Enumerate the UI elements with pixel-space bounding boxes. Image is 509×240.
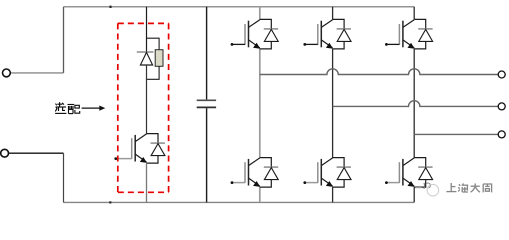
wire: resistor branch top lead (147, 38, 160, 50)
IGBT Q6 (bottom, leg 3): diode branch wire (414, 158, 426, 188)
wire: DC input + lead and riser (10, 72, 63, 74)
IGBT Q1 (top, leg 1): body bar (248, 21, 250, 48)
IGBT Q6 (bottom, leg 3): freewheeling diode cathode bar (418, 166, 432, 168)
IGBT Q4 (bottom, leg 1): body bar (248, 159, 250, 186)
IGBT Q1 (top, leg 1): diode branch wire (260, 19, 272, 49)
IGBT Q3 (top, leg 3): emitter diagonal (403, 40, 414, 48)
wire: phase U output line with hops (260, 69, 498, 75)
IGBT Q2 (top, leg 2): gate bar (317, 24, 319, 45)
wire: phase V output line with hop (333, 101, 499, 107)
IGBT Q1 (top, leg 1): freewheeling diode cathode bar (264, 28, 278, 30)
wire: leg 3 collector drop (413, 7, 415, 20)
IGBT Q4 (bottom, leg 1): diode branch wire (260, 158, 272, 188)
IGBT Q5 (bottom, leg 2): freewheeling diode cathode bar (337, 166, 351, 168)
wire: leg 3 midpoint vertical (413, 49, 415, 158)
capacitor C1 bottom lead (206, 108, 208, 202)
IGBT Q1 (top, leg 1): emitter diagonal (249, 40, 260, 48)
capacitor C1 bottom plate (197, 106, 216, 108)
IGBT Q1 (top, leg 1): emitter arrowhead (254, 44, 260, 49)
IGBT Q3 (top, leg 3): emitter arrowhead (408, 44, 414, 49)
IGBT Q4 (bottom, leg 1): gate terminal dot (231, 181, 234, 184)
wire: resistor branch bottom lead (147, 66, 160, 79)
watermark text: 上海大周 (446, 183, 491, 192)
IGBT Q7 (brake chopper): body bar (134, 135, 136, 162)
wire: leg 2 emitter to bottom rail (332, 187, 334, 202)
terminal: DC input - (1, 149, 9, 157)
wire: brake branch feed from top rail (146, 7, 148, 52)
IGBT Q5 (bottom, leg 2): gate lead (305, 182, 318, 184)
IGBT Q2 (top, leg 2): collector diagonal (322, 20, 333, 28)
IGBT Q3 (top, leg 3): gate terminal dot (385, 43, 388, 46)
IGBT Q4 (bottom, leg 1): collector diagonal (249, 158, 260, 166)
IGBT Q2 (top, leg 2): diode branch wire (333, 19, 345, 49)
IGBT Q7 (brake chopper): emitter arrowhead (141, 158, 147, 163)
wire: phase W output line (414, 133, 498, 135)
IGBT Q3 (top, leg 3): gate lead (386, 43, 399, 45)
IGBT Q5 (bottom, leg 2): gate terminal dot (303, 181, 306, 184)
terminal: phase V output (498, 103, 505, 110)
IGBT Q6 (bottom, leg 3): emitter arrowhead (408, 182, 414, 187)
IGBT Q1 (top, leg 1): collector diagonal (249, 20, 260, 28)
arrow: from label to dashed box (82, 107, 100, 109)
IGBT Q6 (bottom, leg 3): gate lead (386, 182, 399, 184)
IGBT Q5 (bottom, leg 2): emitter arrowhead (327, 182, 333, 187)
IGBT Q5 (bottom, leg 2): body bar (320, 159, 322, 186)
optional-section dashed box (118, 23, 169, 192)
IGBT Q3 (top, leg 3): diode branch wire (414, 19, 426, 49)
IGBT Q3 (top, leg 3): gate bar (398, 24, 400, 45)
IGBT Q1 (top, leg 1): gate terminal dot (231, 43, 234, 46)
IGBT Q7 (brake chopper): gate lead (116, 158, 132, 160)
IGBT Q5 (bottom, leg 2): freewheeling diode triangle (337, 168, 351, 180)
IGBT Q6 (bottom, leg 3): freewheeling diode triangle (419, 168, 433, 180)
IGBT Q5 (bottom, leg 2): gate bar (317, 162, 319, 183)
IGBT Q5 (bottom, leg 2): collector diagonal (322, 158, 333, 166)
watermark logo (416, 183, 439, 196)
capacitor C1 top plate (197, 99, 216, 101)
IGBT Q3 (top, leg 3): freewheeling diode triangle (419, 29, 433, 41)
IGBT Q1 (top, leg 1): gate bar (244, 24, 246, 45)
label: 选配 (optional) text (55, 102, 80, 113)
IGBT Q3 (top, leg 3): body bar (402, 21, 404, 48)
IGBT Q6 (bottom, leg 3): body bar (402, 159, 404, 186)
wire: leg 1 collector drop (259, 7, 261, 20)
IGBT Q2 (top, leg 2): freewheeling diode cathode bar (337, 28, 351, 30)
IGBT Q2 (top, leg 2): gate terminal dot (303, 43, 306, 46)
IGBT Q4 (bottom, leg 1): gate lead (232, 182, 245, 184)
IGBT Q7 (brake chopper): freewheeling diode cathode bar (151, 142, 165, 144)
IGBT Q7 (brake chopper): gate terminal dot (114, 157, 117, 160)
IGBT Q3 (top, leg 3): collector diagonal (403, 20, 414, 28)
IGBT Q2 (top, leg 2): emitter arrowhead (327, 44, 333, 49)
wire: brake branch bottom (Q7 emitter to bottom rail) (146, 163, 148, 202)
IGBT Q2 (top, leg 2): freewheeling diode triangle (337, 29, 351, 41)
diode D7 (series diode of brake branch) (140, 52, 152, 65)
wire: leg 3 emitter to bottom rail (413, 187, 415, 202)
IGBT Q1 (top, leg 1): gate lead (232, 43, 245, 45)
wire: DC input - lead (9, 152, 64, 154)
IGBT Q6 (bottom, leg 3): collector diagonal (403, 158, 414, 166)
node: junction dot on bottom rail (109, 201, 111, 203)
wire: DC+ top rail (64, 6, 415, 8)
IGBT Q5 (bottom, leg 2): emitter diagonal (322, 178, 333, 186)
IGBT Q7 (brake chopper): diode branch wire (147, 134, 159, 164)
IGBT Q7 (brake chopper): gate bar (131, 138, 133, 159)
capacitor C1 top lead (206, 7, 208, 100)
IGBT Q2 (top, leg 2): body bar (320, 21, 322, 48)
resistor R1 (brake resistor) (155, 50, 163, 67)
wire: DC input - riser to bottom rail (63, 153, 65, 202)
IGBT Q4 (bottom, leg 1): freewheeling diode triangle (264, 168, 278, 180)
IGBT Q4 (bottom, leg 1): freewheeling diode cathode bar (264, 166, 278, 168)
wire: leg 1 emitter to bottom rail (259, 187, 261, 202)
terminal: DC input + (3, 69, 11, 77)
IGBT Q6 (bottom, leg 3): gate terminal dot (385, 181, 388, 184)
wire: leg 1 midpoint vertical (259, 49, 261, 158)
IGBT Q4 (bottom, leg 1): emitter diagonal (249, 178, 260, 186)
wire: brake branch middle (diode to Q7 collector) (146, 65, 148, 134)
IGBT Q2 (top, leg 2): emitter diagonal (322, 40, 333, 48)
IGBT Q6 (bottom, leg 3): gate bar (398, 162, 400, 183)
terminal: phase W output (498, 131, 505, 138)
IGBT Q7 (brake chopper): freewheeling diode triangle (151, 144, 165, 156)
IGBT Q5 (bottom, leg 2): diode branch wire (333, 158, 345, 188)
IGBT Q3 (top, leg 3): freewheeling diode cathode bar (418, 28, 432, 30)
wire: DC- bottom rail (64, 201, 415, 203)
IGBT Q1 (top, leg 1): freewheeling diode triangle (264, 29, 278, 41)
wire: leg 2 collector drop (332, 7, 334, 20)
IGBT Q6 (bottom, leg 3): emitter diagonal (403, 178, 414, 186)
IGBT Q4 (bottom, leg 1): gate bar (244, 162, 246, 183)
IGBT Q7 (brake chopper): emitter diagonal (135, 154, 146, 162)
terminal: phase U output (498, 71, 505, 78)
node: junction dot on top rail (109, 6, 111, 8)
IGBT Q7 (brake chopper): collector diagonal (135, 134, 146, 142)
IGBT Q2 (top, leg 2): gate lead (305, 43, 318, 45)
wire: leg 2 midpoint vertical (332, 49, 334, 158)
IGBT Q4 (bottom, leg 1): emitter arrowhead (254, 182, 260, 187)
diode D7 cathode bar (137, 51, 154, 53)
